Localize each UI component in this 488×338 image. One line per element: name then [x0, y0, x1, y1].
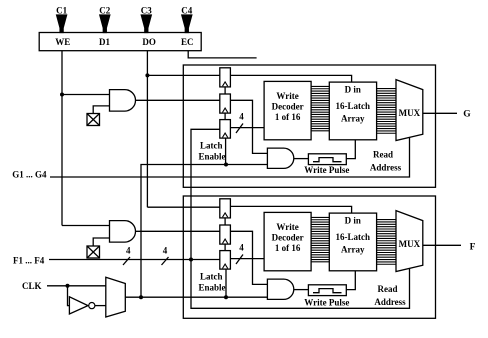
- svg-text:Decoder: Decoder: [272, 102, 304, 112]
- block F-regs latch L2: [220, 225, 231, 244]
- wire DO vertical: [146, 51, 148, 208]
- svg-text:DO: DO: [142, 37, 156, 47]
- block F-regs wire latch L3 out to decoder: [230, 258, 264, 260]
- svg-text:F: F: [470, 243, 476, 253]
- svg-text:4: 4: [163, 246, 168, 256]
- junction dot bottom latch-enable: [224, 295, 228, 299]
- svg-text:Write Pulse: Write Pulse: [304, 298, 349, 308]
- block F-regs enclosure box: [183, 196, 435, 318]
- block G-regs wire AND to write pulse box: [294, 158, 309, 160]
- wire top X-box to AND: [93, 106, 109, 114]
- block F-regs latch L3: [220, 251, 231, 270]
- svg-text:EC: EC: [181, 37, 194, 47]
- block F-regs latch L2 clock triangle: [223, 239, 228, 243]
- svg-text:C4: C4: [181, 6, 192, 16]
- block G-regs wire latch L3 out to decoder: [230, 127, 264, 129]
- block F-regs wire latch L1 out to D-in: [230, 206, 351, 213]
- top write-enable AND gate: [110, 90, 136, 112]
- top X-box cross: [87, 114, 100, 126]
- wire WE to bottom AND gate input: [62, 225, 110, 227]
- block F-regs output MUX: [396, 211, 423, 272]
- svg-text:D in: D in: [345, 215, 361, 225]
- svg-text:1 of 16: 1 of 16: [275, 243, 301, 253]
- block G-regs wire latch L2-L3 stem: [224, 113, 226, 120]
- junction dot F-bus branch: [189, 258, 193, 262]
- wire WE vertical: [61, 51, 63, 226]
- wire inverter to clock mux: [95, 305, 106, 307]
- block G-regs output wire G: [423, 112, 457, 114]
- wire top AND out to latch L2: [136, 99, 220, 101]
- junction dot top latch-enable: [224, 163, 228, 167]
- wire DO to latch D1b: [147, 206, 219, 208]
- input arrow C3: [141, 15, 151, 33]
- block F-regs latch L1 clock triangle: [223, 213, 228, 217]
- block G-regs wire latch L2 out to write AND: [230, 100, 267, 153]
- bottom write-enable AND gate: [110, 221, 136, 243]
- input arrow C1: [57, 15, 67, 33]
- block G-regs bus slash latch L3 out: [236, 124, 243, 134]
- junction dot DO/top-latch: [145, 73, 149, 77]
- input register box WE D1 DO EC: [39, 33, 201, 51]
- bottom X-box (flag): [87, 246, 100, 258]
- top latch3 clock stem: [225, 138, 227, 164]
- block G-regs write pulse AND gate: [267, 148, 293, 168]
- wire F-bus up to top latch3: [191, 129, 220, 259]
- svg-text:Write: Write: [276, 222, 298, 232]
- block G-regs array-to-mux 16-wire hatch: [377, 88, 396, 90]
- wire clock mux output: [125, 296, 267, 298]
- svg-text:WE: WE: [55, 37, 70, 47]
- block G-regs enclosure box: [183, 65, 435, 187]
- svg-text:1 of 16: 1 of 16: [275, 112, 301, 122]
- wire WE to top AND gate input: [62, 94, 110, 96]
- bottom X-box cross: [87, 246, 100, 258]
- wire CLK down to inverter: [68, 286, 70, 306]
- clock phase mux (trapezoid): [106, 277, 126, 317]
- junction dot clock/latch-enable riser: [139, 295, 143, 299]
- bus slash F2: [162, 257, 169, 265]
- svg-text:Write: Write: [276, 91, 298, 101]
- bottom latch3 clock stem: [225, 269, 227, 297]
- block F-regs write pulse AND gate: [267, 279, 293, 299]
- svg-text:D1: D1: [99, 37, 110, 47]
- svg-text:Address: Address: [374, 297, 406, 307]
- svg-text:16-Latch: 16-Latch: [336, 101, 371, 111]
- block F-regs 16-latch array box: [329, 213, 376, 271]
- svg-text:Decoder: Decoder: [272, 233, 304, 243]
- svg-text:MUX: MUX: [399, 239, 421, 249]
- svg-text:D in: D in: [345, 84, 361, 94]
- block G-regs latch L2 clock triangle: [223, 108, 228, 112]
- svg-text:C1: C1: [56, 6, 67, 16]
- svg-text:Latch: Latch: [200, 272, 223, 282]
- svg-text:G: G: [463, 110, 471, 120]
- block F-regs bus slash latch L3 out: [236, 255, 243, 265]
- svg-text:16-Latch: 16-Latch: [336, 232, 371, 242]
- block G-regs output MUX: [396, 80, 423, 141]
- svg-text:4: 4: [239, 243, 244, 253]
- block F-regs output wire F: [423, 244, 461, 246]
- top X-box (flag): [87, 114, 100, 126]
- block G-regs write pulse waveform: [313, 158, 342, 162]
- block F-regs wire array to write pulse: [346, 271, 355, 290]
- svg-text:Array: Array: [341, 114, 365, 124]
- block F-regs latch L1: [220, 199, 231, 218]
- svg-text:Array: Array: [341, 245, 365, 255]
- svg-text:4: 4: [126, 246, 131, 256]
- block F-regs latch L3 clock triangle: [223, 264, 228, 268]
- block G-regs wire latch L1 out to D-in: [230, 75, 351, 82]
- svg-text:Write Pulse: Write Pulse: [304, 165, 349, 175]
- svg-text:Latch: Latch: [200, 141, 223, 151]
- svg-text:G1 ... G4: G1 ... G4: [12, 170, 47, 180]
- block G-regs write pulse box: [308, 154, 346, 165]
- svg-text:C3: C3: [141, 6, 152, 16]
- block F-regs wire AND to write pulse box: [294, 289, 309, 291]
- block G-regs wire latch L1-L2 stem: [224, 87, 226, 94]
- svg-text:F1 ... F4: F1 ... F4: [13, 256, 45, 266]
- wire latch-enable riser to top block: [141, 165, 267, 298]
- block F-regs write decoder box: [264, 212, 311, 270]
- inverter (clock phase): [69, 297, 88, 314]
- svg-text:Enable: Enable: [199, 283, 226, 293]
- block F-regs array-to-mux 16-wire hatch: [377, 219, 396, 221]
- block G-regs decoder-to-array 16-wire hatch: [311, 85, 329, 87]
- svg-text:Address: Address: [370, 163, 402, 173]
- wire bottom AND out to latch L2: [136, 230, 220, 232]
- block G-regs 16-latch array box: [329, 82, 376, 140]
- wire DO to latch D1a: [147, 74, 219, 76]
- wire CLK input: [47, 285, 106, 287]
- junction dot WE/top-AND: [60, 93, 64, 97]
- block F-regs wire latch L2 out to write AND: [230, 231, 267, 284]
- input arrow C4: [182, 15, 192, 33]
- wire G1-G4 read address bus: [50, 137, 410, 177]
- block F-regs write pulse waveform: [313, 289, 342, 293]
- wire EC stub: [188, 51, 256, 58]
- block F-regs decoder-to-array 16-wire hatch: [311, 216, 329, 218]
- block G-regs latch L1 clock triangle: [223, 82, 228, 86]
- block G-regs latch L1: [220, 68, 231, 87]
- wire F1-F4 bus: [49, 259, 220, 261]
- wire F-bus down to bottom MUX read address: [191, 260, 410, 309]
- block G-regs write decoder box: [264, 81, 311, 139]
- block G-regs wire array to write pulse: [346, 140, 355, 159]
- block G-regs latch L3 clock triangle: [223, 133, 228, 137]
- block G-regs latch L2: [220, 94, 231, 113]
- input arrow C2: [100, 15, 110, 33]
- svg-text:4: 4: [239, 112, 244, 122]
- svg-text:C2: C2: [99, 6, 110, 16]
- block F-regs wire latch L1-L2 stem: [224, 218, 226, 225]
- svg-text:Read: Read: [373, 150, 393, 160]
- svg-text:CLK: CLK: [22, 281, 42, 291]
- wire bottom X-box to AND: [93, 238, 109, 246]
- svg-text:Read: Read: [378, 284, 398, 294]
- bus slash F1: [123, 257, 130, 265]
- block F-regs wire latch L2-L3 stem: [224, 244, 226, 251]
- svg-text:MUX: MUX: [399, 108, 421, 118]
- block G-regs latch L3: [220, 120, 231, 139]
- junction dot CLK: [66, 284, 70, 288]
- svg-text:Enable: Enable: [199, 152, 226, 162]
- inverter bubble: [89, 303, 95, 309]
- block F-regs write pulse box: [308, 285, 346, 296]
